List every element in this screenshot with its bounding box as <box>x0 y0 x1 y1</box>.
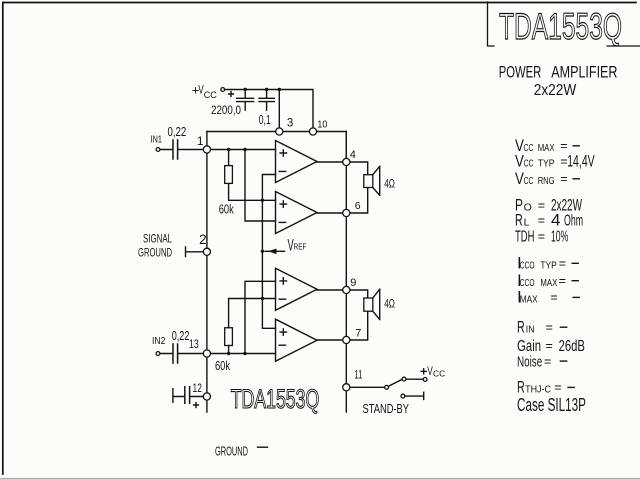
svg-text:=: = <box>546 321 553 335</box>
svg-text:TDA1553Q: TDA1553Q <box>499 6 622 47</box>
svg-text:=: = <box>559 257 566 271</box>
svg-text:GROUND: GROUND <box>138 248 172 260</box>
svg-text:14,4V: 14,4V <box>567 151 595 170</box>
svg-text:CC: CC <box>524 157 534 169</box>
svg-text:=: = <box>560 172 567 186</box>
svg-text:60k: 60k <box>219 201 234 216</box>
svg-text:MAX: MAX <box>520 294 538 306</box>
svg-text:Noise: Noise <box>517 354 542 370</box>
svg-text:GROUND: GROUND <box>215 444 248 459</box>
svg-text:Gain: Gain <box>517 338 541 355</box>
svg-text:Case SIL13P: Case SIL13P <box>517 395 586 415</box>
svg-text:0,22: 0,22 <box>168 125 187 139</box>
svg-text:TYP: TYP <box>538 157 555 169</box>
svg-text:=: = <box>559 274 566 288</box>
svg-text:2: 2 <box>199 232 207 247</box>
svg-text:26dB: 26dB <box>559 338 585 355</box>
svg-text:10%: 10% <box>551 229 568 246</box>
svg-text:2200,0: 2200,0 <box>211 103 241 117</box>
svg-text:60k: 60k <box>215 358 230 373</box>
svg-text:=: = <box>538 230 545 244</box>
svg-text:IN: IN <box>526 324 535 336</box>
svg-text:POWER: POWER <box>499 63 542 82</box>
svg-text:4Ω: 4Ω <box>384 299 395 311</box>
svg-text:11: 11 <box>354 369 362 381</box>
svg-text:IN1: IN1 <box>151 134 163 145</box>
svg-text:L: L <box>524 217 530 229</box>
svg-text:STAND-BY: STAND-BY <box>363 402 410 416</box>
svg-text:THJ-C: THJ-C <box>525 384 551 396</box>
svg-text:R: R <box>517 318 525 337</box>
svg-text:9: 9 <box>350 277 356 289</box>
svg-text:0,1: 0,1 <box>259 113 271 127</box>
svg-text:TDA1553Q: TDA1553Q <box>231 384 320 414</box>
svg-text:R: R <box>515 211 523 230</box>
svg-text:=: = <box>550 291 557 305</box>
svg-text:4Ω: 4Ω <box>384 179 395 191</box>
svg-text:4: 4 <box>350 149 356 161</box>
svg-text:12: 12 <box>193 381 203 395</box>
svg-text:TYP: TYP <box>540 260 556 272</box>
svg-text:0,22: 0,22 <box>172 329 190 343</box>
svg-text:2x22W: 2x22W <box>534 82 577 99</box>
svg-text:7: 7 <box>355 327 361 339</box>
svg-text:CCO: CCO <box>520 277 535 289</box>
svg-text:Ohm: Ohm <box>564 213 583 230</box>
svg-text:CC: CC <box>524 175 534 187</box>
svg-text:TDH: TDH <box>515 229 534 246</box>
svg-text:SIGNAL: SIGNAL <box>143 234 172 246</box>
svg-text:=: = <box>538 214 545 228</box>
svg-text:MAX: MAX <box>538 142 555 154</box>
svg-text:CC: CC <box>433 368 445 378</box>
svg-text:13: 13 <box>189 339 199 351</box>
svg-text:CCO: CCO <box>520 260 535 272</box>
svg-text:4: 4 <box>551 211 560 230</box>
svg-text:O: O <box>524 202 532 214</box>
svg-text:CC: CC <box>204 90 217 100</box>
svg-text:1: 1 <box>197 134 204 148</box>
svg-text:10: 10 <box>317 119 327 131</box>
svg-text:AMPLIFIER: AMPLIFIER <box>551 63 617 82</box>
svg-text:=: = <box>546 339 553 353</box>
svg-text:IN2: IN2 <box>152 336 166 347</box>
svg-text:REF: REF <box>294 242 307 252</box>
svg-text:R: R <box>517 378 525 397</box>
svg-text:=: = <box>544 354 551 368</box>
svg-text:=: = <box>538 199 545 213</box>
svg-text:MAX: MAX <box>540 277 557 289</box>
svg-text:CC: CC <box>524 142 534 154</box>
svg-text:RNG: RNG <box>538 175 555 187</box>
svg-text:3: 3 <box>287 118 293 130</box>
svg-text:=: = <box>554 381 561 395</box>
svg-text:6: 6 <box>355 200 361 212</box>
